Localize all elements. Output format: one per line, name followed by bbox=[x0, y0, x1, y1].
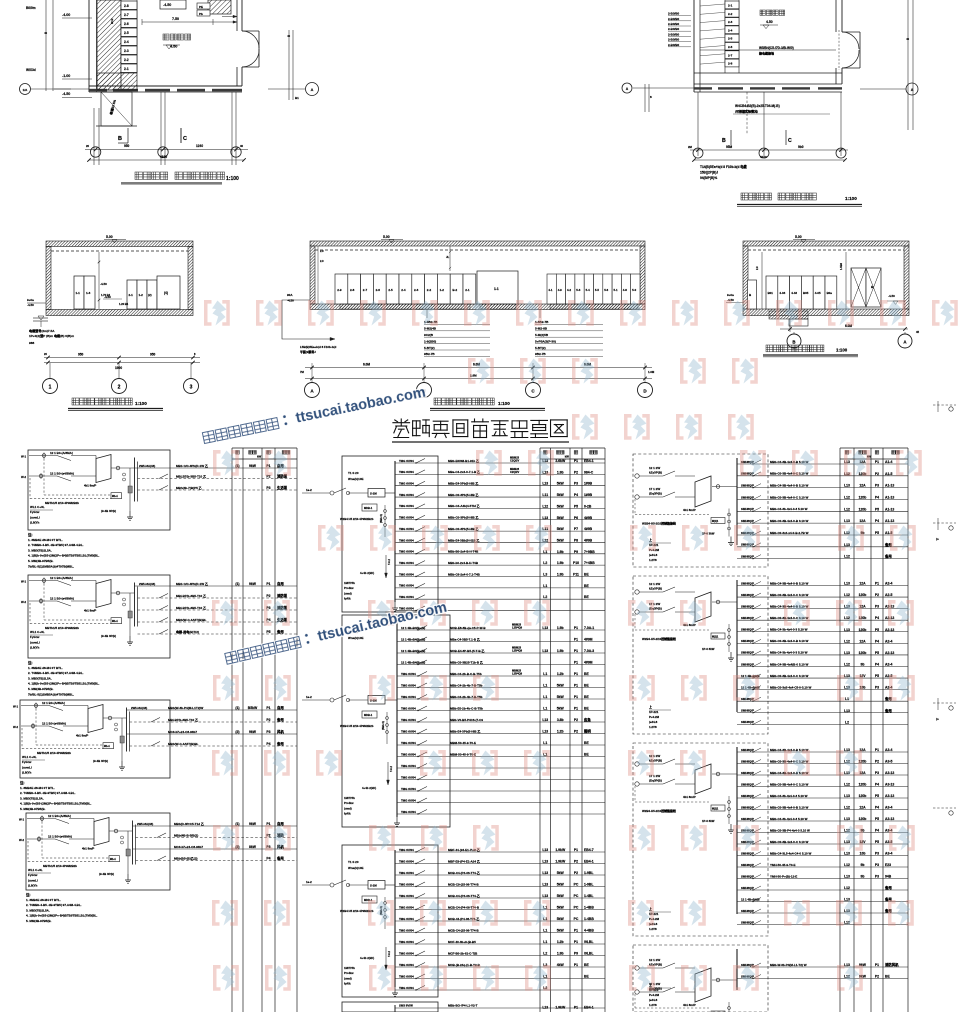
svg-text:MBTb1/5 2/10-4P9M2B2b: MBTb1/5 2/10-4P9M2B2b bbox=[37, 751, 71, 755]
R4 metering box bbox=[711, 1011, 725, 1012]
svg-text:2-B0/B0: 2-B0/B0 bbox=[668, 27, 680, 31]
R1 transfer switch trapezoid bbox=[695, 476, 711, 507]
svg-text:3. MB3(7B)1L5A.: 3. MB3(7B)1L5A. bbox=[20, 796, 44, 800]
svg-text:P3: P3 bbox=[875, 605, 879, 609]
svg-text:(1): (1) bbox=[235, 706, 239, 710]
R2 feeder wire bbox=[737, 608, 908, 610]
svg-text:MBb-C4-3B-4x4-0-B 5.10 W: MBb-C4-3B-4x4-0-B 5.10 W bbox=[770, 483, 809, 487]
R1 feeder wire bbox=[737, 522, 908, 524]
M3 feeder breaker bbox=[416, 882, 425, 887]
M1 incoming breaker box bbox=[368, 489, 385, 498]
svg-text:P5: P5 bbox=[875, 674, 879, 678]
svg-text:9B2-7B: 9B2-7B bbox=[424, 352, 435, 356]
hanging dim mid bbox=[449, 246, 451, 271]
section C floor bbox=[743, 309, 909, 316]
svg-text:MCB-C4-(P4-06-T74-乙: MCB-C4-(P4-06-T74-乙 bbox=[448, 893, 480, 898]
svg-text:L13: L13 bbox=[844, 519, 850, 523]
transformer incomer block L3 bbox=[20, 700, 170, 778]
svg-text:1-4BL: 1-4BL bbox=[584, 894, 593, 898]
grid bubble 1 section A bbox=[43, 379, 58, 394]
L3 ground bbox=[121, 761, 123, 767]
R2 inner dashed link bbox=[635, 629, 709, 631]
L4 metering box M1+1 bbox=[109, 856, 120, 862]
R3 ground bbox=[730, 824, 732, 830]
R3 feeder wire bbox=[737, 889, 908, 891]
M1 feeder wire bbox=[395, 598, 605, 600]
svg-text:1-4BB: 1-4BB bbox=[584, 906, 594, 910]
svg-text:P2: P2 bbox=[875, 593, 879, 597]
R3 feeder wire bbox=[737, 763, 908, 765]
L2 feeder row wire bbox=[138, 633, 298, 635]
L2 feeder row wire bbox=[138, 609, 298, 611]
svg-text:P4: P4 bbox=[875, 616, 879, 620]
svg-text:SMH8Q/P: SMH8Q/P bbox=[741, 581, 754, 585]
svg-text:W2B4-H5-2/10控制箱接线: W2B4-H5-2/10控制箱接线 bbox=[642, 521, 676, 526]
svg-text:5kW: 5kW bbox=[557, 527, 565, 531]
M3 feeder wire bbox=[395, 897, 605, 899]
svg-text:L13: L13 bbox=[844, 709, 850, 713]
R2 feeder wire bbox=[737, 723, 908, 725]
svg-text:12 1 B0-(a4/3MA(: 12 1 B0-(a4/3MA( bbox=[42, 722, 66, 726]
svg-text:2: 2 bbox=[118, 384, 121, 390]
svg-text:L13: L13 bbox=[542, 1006, 548, 1010]
M1 feeder breaker bbox=[416, 606, 425, 611]
svg-text:MBb-C4-3b-4x4-0-3 5.10 W: MBb-C4-3b-4x4-0-3 5.10 W bbox=[770, 817, 808, 821]
right grid line A bbox=[268, 88, 305, 90]
L1 feeder row wire bbox=[138, 489, 298, 491]
M2 control box bbox=[362, 711, 377, 718]
title underline bbox=[763, 354, 858, 356]
svg-text:SMH8Q/P: SMH8Q/P bbox=[741, 874, 754, 878]
cabinets left group bbox=[74, 276, 84, 309]
svg-text:2-6: 2-6 bbox=[728, 45, 733, 49]
svg-text:2. T4MBb-4-B5. dB-9TB5( 97.A4M: 2. T4MBb-4-B5. dB-9TB5( 97.A4M-4.BL. bbox=[26, 903, 82, 907]
R2 metering box bbox=[711, 633, 725, 639]
svg-text:BE: BE bbox=[584, 707, 589, 711]
svg-text:4b1 8m/P: 4b1 8m/P bbox=[84, 484, 96, 488]
svg-text:L1: L1 bbox=[543, 940, 547, 944]
svg-text:L1: L1 bbox=[543, 684, 547, 688]
svg-text:-4.00: -4.00 bbox=[62, 13, 70, 17]
grid bubble A-left bbox=[20, 84, 31, 95]
svg-text:P1: P1 bbox=[574, 638, 578, 642]
svg-text:2-5: 2-5 bbox=[124, 31, 129, 35]
M3 feeder wire bbox=[395, 851, 605, 853]
svg-text:950: 950 bbox=[78, 353, 84, 357]
R2 feeder wire bbox=[737, 665, 908, 667]
svg-text:2.0: 2.0 bbox=[320, 259, 324, 263]
svg-text:MBLB7(b-3B5-T10 乙: MBLB7(b-3B5-T10 乙 bbox=[176, 473, 206, 478]
grid bubble A right bbox=[906, 83, 918, 95]
svg-text:4b1 8m/P: 4b1 8m/P bbox=[683, 795, 696, 799]
R3 bus connection bbox=[712, 773, 737, 775]
svg-text:MDB-1: MDB-1 bbox=[364, 713, 373, 717]
svg-text:WL1 C+3L: WL1 C+3L bbox=[22, 755, 37, 759]
L4 feeder row wire bbox=[133, 825, 298, 827]
panel block M2 bbox=[342, 615, 450, 827]
svg-text:MBTb1/5 2/10-4P9M2B2b: MBTb1/5 2/10-4P9M2B2b bbox=[43, 864, 77, 868]
dual incomer block R3 (dashed box) bbox=[633, 743, 768, 936]
svg-text:1e-2: 1e-2 bbox=[306, 695, 312, 699]
R2 bus connection bbox=[712, 601, 737, 603]
svg-text:L13: L13 bbox=[542, 860, 548, 864]
svg-text:P3: P3 bbox=[875, 875, 879, 879]
svg-text:B5kW: B5kW bbox=[248, 706, 258, 710]
svg-text:MBa-C4-3B5-7.1-B 乙: MBa-C4-3B5-7.1-B 乙 bbox=[450, 636, 480, 641]
svg-text:TMG 6V/04: TMG 6V/04 bbox=[399, 493, 414, 497]
cabinet 11 wide bbox=[477, 271, 518, 304]
svg-text:fy/0k: fy/0k bbox=[344, 812, 351, 816]
svg-text:TMG 6V/04: TMG 6V/04 bbox=[401, 683, 416, 687]
R3 inner dashed link bbox=[635, 801, 709, 803]
section B walls bbox=[310, 241, 645, 246]
svg-text:MBb(4B-B-5/B(2): MBb(4B-B-5/B(2) bbox=[174, 833, 198, 837]
svg-text:5-M2(4B: 5-M2(4B bbox=[424, 327, 437, 331]
svg-text:W2B4 H5 2/10-4P9M2B2b: W2B4 H5 2/10-4P9M2B2b bbox=[340, 517, 374, 521]
svg-text:12 1 B0-(a4/3MA(: 12 1 B0-(a4/3MA( bbox=[50, 472, 74, 476]
svg-text:MBTb1/5 2/10-4P9M2B2b: MBTb1/5 2/10-4P9M2B2b bbox=[45, 626, 79, 630]
svg-text:B05: B05 bbox=[803, 291, 809, 295]
svg-text:A3-5: A3-5 bbox=[885, 760, 892, 764]
svg-text:TMG 6V/04: TMG 6V/04 bbox=[399, 905, 414, 909]
svg-text:5kW: 5kW bbox=[557, 894, 565, 898]
svg-text:2-6: 2-6 bbox=[124, 22, 129, 26]
L2 CT drop with fuse bbox=[129, 593, 131, 636]
svg-text:SM3 8V/W: SM3 8V/W bbox=[399, 1004, 413, 1008]
svg-text:T1 S 20: T1 S 20 bbox=[348, 860, 359, 864]
right grid extension bbox=[907, 0, 909, 130]
svg-text:9+0a: 9+0a bbox=[27, 298, 34, 302]
svg-text:MBb-C0-3B-4x4-0-C 3.10 W: MBb-C0-3B-4x4-0-C 3.10 W bbox=[770, 674, 809, 678]
svg-text:Prolkw: Prolkw bbox=[344, 586, 354, 590]
svg-text:9C2(B: 9C2(B bbox=[424, 333, 434, 337]
svg-text:2-B0/B0: 2-B0/B0 bbox=[668, 12, 680, 16]
svg-text:P5: P5 bbox=[875, 531, 879, 535]
L4 feeder row wire bbox=[136, 837, 298, 839]
svg-text:T1 S 20: T1 S 20 bbox=[348, 471, 359, 475]
svg-text:(Dq3P(B): (Dq3P(B) bbox=[649, 778, 662, 782]
M3 feeder wire bbox=[395, 966, 605, 968]
svg-text:|o: |o bbox=[936, 537, 939, 541]
svg-text:2-9: 2-9 bbox=[337, 288, 342, 292]
svg-text:P1: P1 bbox=[574, 695, 578, 699]
svg-text:4-43: 4-43 bbox=[791, 291, 797, 295]
M2 feeder wire bbox=[397, 802, 605, 804]
svg-text:90A: 90A bbox=[287, 293, 293, 297]
R3 feeder wire bbox=[737, 809, 908, 811]
M3 feeder breaker bbox=[416, 871, 425, 876]
svg-text:2M: 2M bbox=[688, 145, 693, 149]
svg-text:A2-4: A2-4 bbox=[885, 582, 892, 586]
R4 feeder wire bbox=[737, 978, 908, 980]
svg-text:12 1 B0-(A/3MA(: 12 1 B0-(A/3MA( bbox=[50, 451, 73, 455]
svg-text:7+4BB: 7+4BB bbox=[584, 561, 595, 565]
svg-text:PC: PC bbox=[574, 894, 579, 898]
title underline bbox=[68, 408, 163, 410]
svg-text:P2: P2 bbox=[574, 860, 578, 864]
svg-text:L12: L12 bbox=[844, 783, 850, 787]
svg-text:A2-13: A2-13 bbox=[885, 651, 894, 655]
svg-text:(e44.8: (e44.8 bbox=[649, 720, 658, 724]
svg-text:kW: kW bbox=[257, 455, 262, 459]
svg-text:1#9B: 1#9B bbox=[584, 482, 593, 486]
M2 feeder wire bbox=[397, 779, 605, 781]
svg-text:A1-13: A1-13 bbox=[885, 507, 894, 511]
M3 feeder wire bbox=[395, 886, 605, 888]
svg-text:MBF-E9-(P4-E1-A24 乙: MBF-E9-(P4-E1-A24 乙 bbox=[448, 858, 480, 863]
svg-text:9kW: 9kW bbox=[249, 730, 257, 734]
svg-text:(uowLI: (uowLI bbox=[30, 515, 40, 519]
M3 feeder breaker bbox=[416, 974, 425, 979]
svg-text:|o: |o bbox=[936, 717, 939, 721]
svg-text:3. MB3(7B)1L5A.: 3. MB3(7B)1L5A. bbox=[26, 908, 50, 912]
wall left (hatched) bbox=[97, 0, 121, 90]
svg-text:12 1 2W: 12 1 2W bbox=[649, 466, 660, 470]
R4 feeder wire bbox=[737, 966, 908, 968]
door elevation with X braces bbox=[851, 268, 866, 307]
L4 CT drop with fuse bbox=[127, 831, 129, 874]
svg-text:L1: L1 bbox=[543, 584, 547, 588]
svg-text:4b1 8m/P: 4b1 8m/P bbox=[82, 847, 94, 851]
svg-text:TMG 6V/04: TMG 6V/04 bbox=[399, 882, 414, 886]
L2 transfer switch trapezoid bbox=[96, 580, 111, 608]
svg-text:W2B4 H5 2/10-4P9M2B2b: W2B4 H5 2/10-4P9M2B2b bbox=[340, 724, 374, 728]
svg-text:TMG 6V/04: TMG 6V/04 bbox=[399, 928, 414, 932]
svg-text:(Dq3P(B): (Dq3P(B) bbox=[649, 491, 662, 495]
svg-text:1:100: 1:100 bbox=[226, 176, 239, 182]
M3 feeder breaker bbox=[416, 951, 425, 956]
PE boxes bbox=[197, 3, 210, 9]
svg-text:fy/0k: fy/0k bbox=[344, 982, 351, 986]
svg-text:1240: 1240 bbox=[196, 144, 203, 148]
dim below section C bbox=[789, 319, 791, 332]
M1 feeder wire bbox=[395, 473, 605, 475]
svg-text:注:: 注: bbox=[26, 892, 31, 897]
svg-text:(L8(Yh: (L8(Yh bbox=[30, 646, 40, 650]
svg-text:MBb-C0-3B-4x4-0-C 3.10 W: MBb-C0-3B-4x4-0-C 3.10 W bbox=[770, 840, 809, 844]
svg-text:TMG 6V/04: TMG 6V/04 bbox=[399, 470, 414, 474]
dimension line bbox=[690, 149, 848, 151]
M1 feeder breaker bbox=[416, 481, 425, 486]
svg-text:MBb-C0-3B-4x4-0-C 3.10 W: MBb-C0-3B-4x4-0-C 3.10 W bbox=[770, 472, 809, 476]
right margin connector symbol 2 bbox=[933, 522, 956, 524]
svg-text:4#9M: 4#9M bbox=[584, 661, 593, 665]
svg-text:TMG 6V/04: TMG 6V/04 bbox=[399, 974, 414, 978]
svg-text:120b: 120b bbox=[859, 783, 867, 787]
dim line 2 bbox=[694, 159, 845, 161]
svg-text:P5: P5 bbox=[266, 630, 270, 634]
L1 feeder row wire bbox=[138, 478, 298, 480]
svg-text:5+P5A(3(P-30): 5+P5A(3(P-30) bbox=[535, 339, 556, 343]
svg-text:2-5: 2-5 bbox=[388, 288, 393, 292]
svg-text:Prolkw: Prolkw bbox=[344, 801, 354, 805]
title section B bbox=[434, 398, 494, 405]
svg-text:950: 950 bbox=[124, 144, 130, 148]
svg-text:TMG 6V/04: TMG 6V/04 bbox=[399, 516, 414, 520]
svg-text:P4: P4 bbox=[875, 662, 879, 666]
M3 feeder wire bbox=[395, 989, 605, 991]
svg-text:9kW: 9kW bbox=[249, 582, 257, 586]
svg-text:2.0: 2.0 bbox=[755, 266, 759, 270]
M2 feeder breaker bbox=[418, 626, 427, 631]
svg-text:消防泵: 消防泵 bbox=[277, 593, 288, 598]
svg-text:SMH8Q/P: SMH8Q/P bbox=[741, 805, 754, 809]
svg-text:TMG 6V/04: TMG 6V/04 bbox=[399, 482, 414, 486]
M2 feeder wire bbox=[397, 790, 605, 792]
svg-text:W-2: W-2 bbox=[19, 838, 25, 842]
svg-text:P1: P1 bbox=[266, 706, 270, 710]
grid verticals below plan bbox=[93, 108, 95, 165]
svg-text:MBb-C0-3B-4x4-0-B 3.10 W: MBb-C0-3B-4x4-0-B 3.10 W bbox=[770, 519, 809, 523]
L2 feeder row wire bbox=[135, 585, 298, 587]
svg-text:P1: P1 bbox=[875, 582, 879, 586]
ceiling dashed bbox=[315, 249, 640, 251]
svg-text:P1: P1 bbox=[574, 963, 578, 967]
title section C bbox=[766, 345, 824, 352]
svg-text:B-2: B-2 bbox=[452, 288, 457, 292]
svg-text:MBLB7(b-3B5-T10 乙: MBLB7(b-3B5-T10 乙 bbox=[168, 717, 198, 722]
main title glyph 7 bbox=[511, 421, 528, 438]
R3 feeder wire bbox=[737, 878, 908, 880]
svg-text:MBb-C0-3B-4x4-0-C 3.10 W: MBb-C0-3B-4x4-0-C 3.10 W bbox=[770, 782, 809, 786]
R3 feeder wire bbox=[737, 797, 908, 799]
R2 feeder wire bbox=[737, 642, 908, 644]
M1 feeder breaker bbox=[416, 493, 425, 498]
R2 feeder wire bbox=[737, 689, 908, 691]
svg-text:1-9(2B0): 1-9(2B0) bbox=[424, 339, 436, 343]
main title glyph 3 bbox=[432, 421, 449, 437]
M1 ground bbox=[394, 602, 396, 608]
svg-text:2-6: 2-6 bbox=[376, 288, 381, 292]
svg-text:5kW: 5kW bbox=[557, 504, 565, 508]
grid bubble A section C bbox=[898, 334, 912, 348]
svg-text:TMG 6V/04: TMG 6V/04 bbox=[399, 538, 414, 542]
svg-text:L1: L1 bbox=[543, 672, 547, 676]
svg-text:2WH-8A(43): 2WH-8A(43) bbox=[139, 464, 155, 468]
svg-text:P8: P8 bbox=[574, 538, 578, 542]
L2 feeder row wire bbox=[138, 621, 298, 623]
door leaf arcs (double door) bbox=[242, 31, 259, 48]
cabinet column (8) bbox=[725, 1, 739, 9]
svg-text:T-0.2: T-0.2 bbox=[387, 559, 391, 565]
svg-text:BE: BE bbox=[584, 684, 589, 688]
R1 feeder wire bbox=[737, 475, 908, 477]
svg-text:5-5: 5-5 bbox=[595, 288, 599, 292]
svg-text:MBb-C0-3B-4x4-0-C 3.10 W: MBb-C0-3B-4x4-0-C 3.10 W bbox=[770, 593, 809, 597]
svg-text:SMH8Q/P: SMH8Q/P bbox=[741, 720, 754, 724]
M2 feeder breaker bbox=[418, 660, 427, 665]
R2 busbar bbox=[736, 580, 738, 712]
L2 busbar double bbox=[134, 583, 136, 627]
svg-text:5-M(2)5B: 5-M(2)5B bbox=[535, 333, 549, 337]
schedule table mid verticals bbox=[539, 448, 541, 1012]
R3 transfer switch trapezoid bbox=[695, 764, 711, 794]
svg-text:P4: P4 bbox=[875, 639, 879, 643]
svg-text:4-9: 4-9 bbox=[558, 288, 562, 292]
svg-text:L13: L13 bbox=[542, 482, 548, 486]
svg-text:TMG 6V/04: TMG 6V/04 bbox=[401, 775, 416, 779]
svg-text:1.20 B4: 1.20 B4 bbox=[119, 302, 129, 306]
svg-text:MBb-C0-3x5-4x4-C5-0-3.10 W: MBb-C0-3x5-4x4-C5-0-3.10 W bbox=[770, 685, 812, 689]
svg-text:-4.50: -4.50 bbox=[888, 294, 895, 298]
svg-text:L3: L3 bbox=[543, 573, 547, 577]
cabinet row group 2 (10 cabinets) bbox=[547, 274, 556, 304]
svg-text:W2B4-H5-2/10控制箱接线: W2B4-H5-2/10控制箱接线 bbox=[642, 636, 676, 641]
L4 busbar double bbox=[132, 821, 134, 865]
svg-text:L13: L13 bbox=[542, 848, 548, 852]
R3 feeder wire bbox=[737, 786, 908, 788]
svg-text:M1+1: M1+1 bbox=[112, 496, 119, 498]
M3 feeder breaker bbox=[416, 986, 425, 991]
interior hatch block top-right bbox=[208, 0, 231, 14]
svg-text:E23: E23 bbox=[885, 863, 891, 867]
svg-text:P1: P1 bbox=[875, 963, 879, 967]
svg-text:P1: P1 bbox=[574, 661, 578, 665]
svg-text:A3-13: A3-13 bbox=[885, 794, 894, 798]
svg-text:自用: 自用 bbox=[277, 581, 284, 586]
svg-text:4+4b 2(kK): 4+4b 2(kK) bbox=[360, 956, 374, 960]
svg-text:YMH-50-45-9-T0-E: YMH-50-45-9-T0-E bbox=[770, 863, 796, 867]
svg-text:P9: P9 bbox=[574, 550, 578, 554]
svg-text:SMH8Q/P: SMH8Q/P bbox=[741, 519, 754, 523]
svg-text:MBb-C0-3x4-x4-0-B-2.7B W: MBb-C0-3x4-x4-0-B-2.7B W bbox=[770, 531, 809, 535]
svg-text:12 1 B0-(a4/3MA(: 12 1 B0-(a4/3MA( bbox=[48, 835, 72, 839]
R2 feeder wire bbox=[737, 631, 908, 633]
ceiling dashed bbox=[748, 249, 904, 251]
svg-text:P2: P2 bbox=[574, 871, 578, 875]
svg-text:B: B bbox=[118, 136, 122, 142]
svg-text:(1): (1) bbox=[235, 582, 239, 586]
svg-text:9b: 9b bbox=[861, 875, 865, 879]
svg-text:1-9BL: 1-9BL bbox=[584, 883, 593, 887]
svg-text:C2Q/2V: C2Q/2V bbox=[510, 470, 519, 474]
R1 busbar bbox=[736, 458, 738, 545]
dashed door line bbox=[838, 30, 840, 70]
M2 feeder breaker bbox=[418, 787, 427, 792]
svg-text:MBb-C4-3B-4x4-0-B 5.10 W: MBb-C4-3B-4x4-0-B 5.10 W bbox=[770, 581, 809, 585]
PE leader arrow bbox=[222, 16, 233, 18]
svg-text:12A: 12A bbox=[859, 582, 866, 586]
L1 metering box M1+1 bbox=[111, 493, 122, 499]
svg-text:1M/Tr5h: 1M/Tr5h bbox=[344, 581, 355, 585]
L3 busbar double bbox=[126, 708, 128, 752]
R3 feeder wire bbox=[737, 820, 908, 822]
R3 feeder wire bbox=[737, 924, 908, 926]
svg-text:5kW: 5kW bbox=[557, 871, 565, 875]
svg-text:4#9B: 4#9B bbox=[584, 527, 593, 531]
R1 CT bbox=[728, 509, 730, 537]
svg-text:M1+1: M1+1 bbox=[104, 746, 111, 748]
grid bubble 2 bbox=[759, 148, 769, 158]
svg-text:95M: 95M bbox=[726, 145, 733, 149]
svg-text:自用: 自用 bbox=[277, 821, 284, 826]
svg-text:SMH8Q/P: SMH8Q/P bbox=[741, 886, 754, 890]
M2 feeder breaker bbox=[418, 706, 427, 711]
svg-text:P4: P4 bbox=[875, 783, 879, 787]
svg-text:-4.50: -4.50 bbox=[287, 299, 294, 303]
svg-text:P2: P2 bbox=[574, 470, 578, 474]
R3 metering box bbox=[711, 805, 725, 811]
svg-text:TMG 6V/04: TMG 6V/04 bbox=[399, 595, 414, 599]
svg-text:SMH8Q/P: SMH8Q/P bbox=[741, 495, 754, 499]
vertical dim inside bbox=[98, 252, 100, 309]
svg-text:A: A bbox=[311, 88, 314, 92]
M2 feeder wire bbox=[397, 813, 605, 815]
M2 feeder wire bbox=[397, 733, 605, 735]
svg-text:SMH8Q/P: SMH8Q/P bbox=[741, 604, 754, 608]
svg-text:P2: P2 bbox=[266, 718, 270, 722]
dimension line section B bbox=[305, 367, 652, 369]
